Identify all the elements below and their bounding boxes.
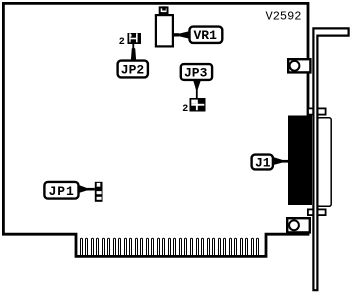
J1 mounting tab lower bbox=[308, 209, 326, 215]
bracket (slot bracket with top flange) bbox=[313, 28, 348, 290]
edge connector fingers bbox=[81, 238, 259, 255]
leader line to JP2 bbox=[132, 44, 134, 50]
trimmer VR1 knob bbox=[160, 7, 168, 13]
svg-text:2: 2 bbox=[119, 37, 125, 48]
jumper block JP3 bbox=[190, 98, 206, 112]
label JP2 bbox=[118, 61, 148, 78]
svg-text:2: 2 bbox=[182, 104, 188, 115]
label J1 bbox=[252, 155, 273, 170]
jumper block JP2 bbox=[128, 33, 142, 44]
leader arrow to VR1 bbox=[178, 31, 189, 38]
svg-text:JP1: JP1 bbox=[49, 184, 75, 199]
svg-text:JP3: JP3 bbox=[184, 66, 208, 81]
jumper block JP1 bbox=[95, 182, 103, 202]
bracket screw hole top bbox=[288, 59, 310, 72]
bracket screw hole bottom bbox=[287, 218, 310, 232]
erase card edge behind J1 lower area bbox=[306, 205, 311, 218]
label JP3 bbox=[181, 64, 212, 80]
trimmer VR1 knob notch bbox=[162, 6, 166, 10]
leader arrow to JP1 bbox=[80, 185, 88, 193]
label JP1 bbox=[44, 182, 78, 199]
J1 mounting tab upper bbox=[308, 108, 326, 114]
svg-text:V2592: V2592 bbox=[266, 10, 302, 24]
leader line to JP3 bbox=[196, 88, 198, 99]
svg-text:VR1: VR1 bbox=[194, 28, 218, 43]
svg-text:JP2: JP2 bbox=[121, 62, 145, 77]
leader arrow to J1 bbox=[274, 157, 284, 165]
trimmer VR1 body bbox=[156, 15, 173, 46]
connector J1 body bbox=[288, 116, 312, 206]
label VR1 bbox=[190, 27, 223, 43]
svg-text:J1: J1 bbox=[255, 155, 271, 170]
card outline (PCB edge) bbox=[3, 3, 308, 256]
J1 DB connector shell bbox=[318, 118, 332, 207]
